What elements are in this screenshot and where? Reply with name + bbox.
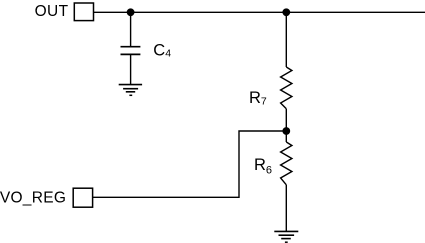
node junction feedback divider tap: [282, 127, 290, 135]
wire from top rail down to C4: [130, 12, 132, 46]
wire from R7 down to feedback node: [285, 109, 287, 131]
port VO_REG terminal box: [73, 188, 92, 207]
ground symbol below R6: [274, 231, 298, 242]
wire top rail from OUT port to right edge: [94, 11, 425, 13]
wire from C4 down to ground: [130, 54, 132, 84]
svg-text:OUT: OUT: [35, 3, 69, 20]
wire from R6 down to ground: [285, 185, 287, 232]
ground symbol below C4: [119, 85, 142, 96]
node junction at C4 tap: [127, 8, 135, 16]
svg-text:R7: R7: [249, 89, 267, 108]
wire from top rail down to R7: [285, 12, 287, 67]
svg-text:C4: C4: [153, 42, 171, 60]
svg-text:R6: R6: [254, 156, 272, 176]
port OUT terminal box: [74, 3, 93, 21]
svg-text:VO_REG: VO_REG: [0, 189, 66, 206]
resistor R6: [281, 142, 292, 185]
wire from feedback node down to R6: [285, 131, 287, 142]
node junction at R7 top: [282, 8, 290, 16]
capacitor C4: [121, 47, 141, 55]
resistor R7: [281, 67, 292, 109]
wire from feedback node left toward VO_REG: [93, 131, 286, 197]
